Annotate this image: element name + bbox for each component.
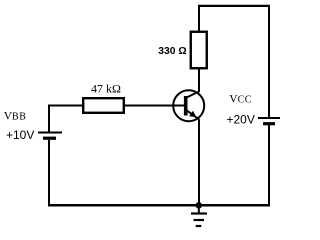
transistor Q1 collector diagonal: [186, 92, 200, 99]
transistor Q1 emitter arrow: [189, 111, 196, 117]
wire: collector vertical from R2 to Q1: [198, 69, 200, 92]
wire: top rail from collector branch to VCC branch: [198, 5, 270, 7]
battery VCC long plate (+): [258, 117, 280, 119]
transistor Q1 emitter diagonal: [186, 110, 200, 120]
svg-text:+10V: +10V: [6, 128, 34, 142]
wire: left vertical from VBB battery down to bottom rail: [48, 140, 50, 207]
transistor Q1 base bar: [184, 96, 188, 116]
resistor R1 47 kOhm body: [83, 98, 124, 113]
wire: emitter vertical from Q1 down to bottom rail: [198, 120, 200, 206]
node: junction dot emitter/bottom rail: [196, 202, 202, 208]
svg-text:VBB: VBB: [4, 110, 27, 122]
ground: stem: [198, 205, 200, 213]
svg-text:330 Ω: 330 Ω: [158, 46, 186, 57]
svg-text:47 kΩ: 47 kΩ: [91, 82, 121, 96]
transistor Q1 circle: [173, 90, 204, 121]
ground: bar 3: [196, 225, 202, 227]
wire: stub from top rail down to R2: [198, 5, 200, 32]
resistor R2 330 Ohm body: [191, 32, 207, 69]
wire: bottom rail: [48, 204, 270, 207]
wire: right vertical from top rail down to VCC battery: [268, 5, 270, 118]
wire: base wire from R1 to transistor Q1: [124, 105, 186, 107]
battery VBB long plate (+): [38, 132, 62, 134]
svg-text:VCC: VCC: [229, 94, 252, 106]
ground: bar 1: [191, 212, 207, 214]
ground: bar 2: [194, 219, 205, 221]
battery VBB short plate (-): [43, 137, 56, 140]
wire: right vertical from VCC battery down to bottom rail: [268, 125, 270, 206]
svg-text:+20V: +20V: [227, 113, 255, 127]
wire: left vertical from top corner down to VBB battery: [48, 105, 50, 133]
wire: left horizontal from VBB corner to resistor R1: [48, 105, 83, 107]
battery VCC short plate (-): [263, 122, 275, 125]
